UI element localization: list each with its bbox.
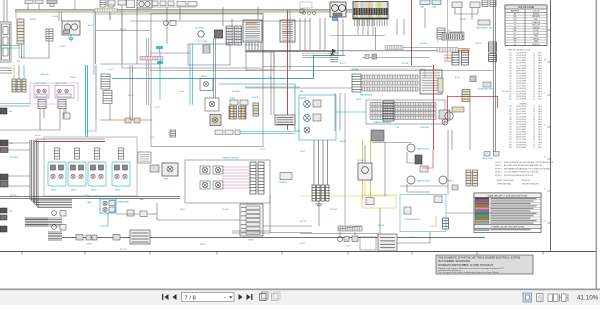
svg-text:301-GN WIRE: 301-GN WIRE	[516, 109, 526, 111]
wire	[364, 180, 366, 196]
zone box	[44, 137, 137, 196]
svg-text:C-07: C-07	[268, 77, 272, 79]
svg-text:YELLOW: YELLOW	[532, 25, 540, 27]
svg-text:G: G	[544, 221, 546, 223]
wire	[422, 150, 433, 168]
wire	[109, 12, 111, 21]
resistor R1	[438, 78, 443, 92]
svg-text:16: 16	[533, 73, 535, 75]
wire	[39, 108, 41, 130]
svg-text:WIPER: WIPER	[300, 98, 307, 100]
lamp E3	[52, 225, 66, 231]
wire	[232, 230, 270, 232]
svg-text:GND-2: GND-2	[60, 46, 66, 48]
svg-text:210-OR WIRE: 210-OR WIRE	[516, 98, 526, 100]
module A14	[25, 0, 33, 4]
svg-text:289: 289	[509, 126, 512, 128]
svg-text:PLUG: PLUG	[345, 246, 350, 248]
relay K5	[205, 98, 219, 111]
wire	[13, 65, 15, 79]
wire	[0, 47, 20, 49]
svg-text:VALVE: VALVE	[51, 189, 57, 192]
wire	[109, 104, 111, 120]
wire	[396, 19, 398, 35]
svg-text:CONVERTER 24V: CONVERTER 24V	[404, 219, 420, 221]
svg-text:YL: YL	[514, 25, 516, 27]
svg-text:105-RD: 105-RD	[52, 16, 59, 18]
svg-text:SW: SW	[9, 211, 12, 213]
wire	[263, 66, 433, 68]
connector bank J21	[229, 106, 237, 119]
svg-text:16: 16	[533, 119, 535, 121]
wire	[447, 0, 449, 60]
wire	[364, 145, 366, 163]
wire	[337, 19, 339, 55]
page border	[0, 251, 596, 253]
svg-text:RELAY: RELAY	[201, 75, 208, 78]
ignition unit A7	[371, 130, 384, 141]
wire	[140, 56, 160, 58]
wire	[85, 65, 87, 137]
wire	[8, 142, 30, 144]
zone box	[360, 237, 376, 250]
svg-text:START RELAY: START RELAY	[34, 82, 47, 85]
relay K6	[210, 115, 221, 126]
svg-text:102-RD WIRE: 102-RD WIRE	[516, 58, 526, 60]
wire	[403, 47, 437, 49]
diode D1	[125, 118, 131, 123]
svg-text:16: 16	[533, 55, 535, 57]
svg-text:201-WH: 201-WH	[222, 209, 229, 211]
svg-text:131-WH WIRE: 131-WH WIRE	[516, 78, 526, 80]
bus wires	[30, 140, 72, 208]
relay K4	[200, 75, 213, 91]
wire	[411, 0, 413, 65]
svg-text:320-WH WIRE: 320-WH WIRE	[516, 121, 526, 123]
wire	[30, 83, 78, 101]
connector J37	[490, 0, 496, 7]
switch S2	[0, 140, 13, 146]
connector J30	[130, 230, 150, 244]
svg-text:16: 16	[533, 129, 535, 131]
svg-text:16: 16	[533, 139, 535, 141]
wire	[109, 12, 111, 19]
wire list	[508, 49, 546, 149]
connector J26	[420, 70, 442, 94]
svg-text:205: 205	[509, 91, 512, 93]
wire	[342, 19, 344, 55]
svg-text:128: 128	[509, 63, 512, 65]
connector bank J22	[239, 106, 247, 119]
key switch S1	[476, 20, 492, 30]
wire	[240, 56, 345, 79]
svg-text:16: 16	[533, 132, 535, 134]
wire	[0, 45, 20, 47]
wire	[350, 69, 425, 78]
svg-text:233: 233	[509, 106, 512, 108]
wire	[150, 70, 493, 72]
wire	[458, 48, 470, 50]
wire	[219, 84, 295, 131]
svg-text:170: 170	[509, 78, 512, 80]
wire	[58, 12, 60, 21]
module A11	[118, 0, 126, 5]
plug X5	[345, 236, 358, 248]
next page button	[239, 294, 243, 300]
wire	[0, 72, 12, 74]
connector P1	[47, 0, 57, 7]
wire	[372, 142, 411, 144]
hour meter P2	[330, 2, 346, 17]
wire	[0, 67, 12, 69]
wire	[400, 185, 448, 187]
svg-text:16: 16	[533, 126, 535, 128]
svg-text:BLACK: BLACK	[533, 12, 540, 15]
svg-text:141-YL WIRE: 141-YL WIRE	[516, 86, 526, 88]
cover icon	[560, 294, 569, 302]
wire	[48, 29, 50, 41]
first page button	[162, 294, 169, 300]
wire	[0, 175, 30, 177]
svg-text:401-GN WIRE: 401-GN WIRE	[516, 142, 526, 144]
alternator G1	[137, 0, 152, 8]
svg-text:16: 16	[533, 116, 535, 118]
breaker CB2	[470, 2, 480, 8]
wire	[222, 7, 224, 26]
svg-text:BLUE: BLUE	[534, 30, 540, 32]
svg-text:338: 338	[509, 144, 512, 146]
bus wires	[25, 218, 62, 226]
svg-text:GAUGE TEMP: GAUGE TEMP	[417, 180, 430, 183]
instrument cluster	[300, 2, 316, 15]
ground	[316, 201, 323, 207]
beacon assembly	[87, 199, 130, 213]
svg-text:ALT-R: ALT-R	[180, 208, 186, 211]
connector J17	[38, 100, 46, 109]
wire	[85, 120, 96, 131]
connector J12	[437, 28, 445, 43]
svg-text:226: 226	[509, 98, 512, 100]
svg-text:16: 16	[533, 58, 535, 60]
svg-text:WIRE GROUP COLOR DESCRIPTIONS: WIRE GROUP COLOR DESCRIPTIONS	[488, 195, 528, 197]
svg-text:GRAY: GRAY	[533, 35, 539, 38]
wire	[246, 42, 261, 50]
svg-text:254: 254	[509, 114, 512, 116]
svg-text:SW: SW	[9, 111, 12, 113]
svg-text:BROWN: BROWN	[532, 16, 540, 18]
svg-text:SEE HARNESS DRAWINGS FOR CONNE: SEE HARNESS DRAWINGS FOR CONNECTOR DETAI…	[504, 167, 550, 170]
svg-text:TERM: TERM	[248, 240, 254, 242]
svg-text:E-STOP: E-STOP	[10, 195, 17, 197]
svg-text:307-GN: 307-GN	[120, 29, 127, 31]
connector stack J20	[103, 91, 112, 104]
svg-text:SPD SEN: SPD SEN	[232, 91, 241, 93]
wire	[330, 35, 385, 37]
connector J33	[442, 31, 462, 41]
connector J14	[489, 54, 497, 62]
svg-text:16: 16	[533, 63, 535, 65]
wire	[15, 10, 352, 12]
solenoid valve V4	[112, 148, 130, 192]
zone box	[151, 14, 263, 147]
svg-text:SPLICES SHOWN AS SOLID DOTS: SPLICES SHOWN AS SOLID DOTS	[504, 174, 534, 177]
gauge G2	[407, 176, 430, 184]
svg-text:109-GN WIRE: 109-GN WIRE	[516, 63, 526, 65]
fuse cable F4	[385, 46, 403, 50]
wire	[355, 19, 388, 26]
svg-text:149: 149	[509, 70, 512, 72]
svg-text:RED: RED	[534, 19, 539, 21]
svg-text:GND-2: GND-2	[356, 99, 362, 101]
svg-text:135: 135	[509, 65, 512, 67]
connector J10	[420, 0, 430, 9]
svg-text:B-PLUS: B-PLUS	[402, 63, 409, 65]
sensor B4	[279, 173, 292, 185]
svg-text:RELAY: RELAY	[70, 76, 77, 79]
zone box	[122, 14, 263, 68]
zone box	[188, 44, 230, 65]
wire	[424, 8, 426, 28]
wire	[358, 19, 373, 35]
svg-text:16: 16	[533, 134, 535, 136]
svg-text:350-GY WIRE: 350-GY WIRE	[516, 139, 526, 141]
wire	[232, 195, 270, 233]
wire	[222, 167, 250, 188]
diode D3	[452, 185, 458, 190]
flasher A8	[415, 155, 422, 164]
connector J4	[46, 29, 53, 41]
svg-text:HEAT RELAY: HEAT RELAY	[55, 82, 67, 85]
relay K8	[482, 152, 499, 161]
wire	[287, 10, 289, 130]
svg-text:296: 296	[509, 129, 512, 131]
svg-text:337-YL WIRE: 337-YL WIRE	[516, 132, 526, 134]
svg-text:240: 240	[509, 109, 512, 111]
svg-text:WH-WHT GRN-GRN: WH-WHT GRN-GRN	[522, 183, 539, 185]
svg-text:PINK: PINK	[534, 41, 539, 43]
svg-text:310: 310	[509, 134, 512, 136]
display icon	[333, 18, 338, 21]
svg-text:16: 16	[533, 93, 535, 95]
wire	[397, 232, 430, 243]
svg-text:16: 16	[533, 137, 535, 139]
svg-text:198: 198	[509, 88, 512, 90]
svg-text:WHITE: WHITE	[533, 38, 540, 40]
connector J11	[432, 0, 441, 9]
svg-text:BU-BLUE: BU-BLUE	[522, 180, 531, 182]
svg-text:317-BK WIRE: 317-BK WIRE	[516, 119, 526, 121]
motor M3	[445, 107, 464, 120]
wire	[132, 65, 134, 120]
cable end	[330, 53, 338, 62]
wire	[300, 18, 325, 50]
svg-text:208-BK: 208-BK	[410, 237, 417, 239]
svg-text:SCHEMATIC PART NUMBER: 12-V23B: SCHEMATIC PART NUMBER: 12-V23B, CHANGE 0…	[438, 264, 494, 267]
wire	[460, 8, 462, 33]
fuse block F2	[450, 32, 464, 40]
switch S4	[0, 174, 8, 187]
svg-text:201-WH WIRE: 201-WH WIRE	[516, 93, 526, 95]
svg-text:WIRE CKT GA WIRE COLOR: WIRE CKT GA WIRE COLOR	[508, 49, 531, 52]
module A3	[168, 1, 174, 6]
svg-text:ALARM BACKUP: ALARM BACKUP	[478, 88, 494, 91]
wire	[157, 219, 240, 221]
connector J25	[352, 74, 361, 92]
switch S10	[0, 108, 12, 114]
wire	[100, 63, 160, 65]
svg-text:206-RD WIRE: 206-RD WIRE	[516, 96, 526, 98]
bus wires	[48, 232, 62, 240]
toolbar background	[0, 289, 600, 291]
wire	[0, 185, 30, 187]
svg-text:(SCH NUMBER: SEVW29H4C): (SCH NUMBER: SEVW29H4C)	[438, 261, 470, 263]
wire	[0, 103, 30, 105]
wire	[0, 196, 180, 198]
wire	[6, 0, 8, 22]
svg-text:307-GN: 307-GN	[502, 91, 509, 93]
svg-text:100-WH WIRE: 100-WH WIRE	[516, 53, 526, 55]
svg-text:156: 156	[509, 73, 512, 75]
diode D2	[134, 118, 140, 123]
page number field	[182, 293, 235, 302]
clipboard icon	[272, 292, 281, 301]
svg-text:PUMP: PUMP	[163, 179, 169, 181]
wire	[231, 19, 233, 26]
svg-text:282: 282	[509, 124, 512, 126]
svg-text:16: 16	[533, 124, 535, 126]
wiper motor assembly	[299, 95, 336, 140]
svg-text:177: 177	[509, 81, 512, 83]
svg-text:121: 121	[509, 60, 512, 62]
wire	[61, 12, 63, 21]
wire	[375, 27, 377, 50]
svg-text:FUSE 10A: FUSE 10A	[420, 126, 429, 129]
wire	[8, 149, 30, 151]
svg-text:OTHER COLOR DESCRIPTIONS: OTHER COLOR DESCRIPTIONS	[491, 227, 525, 229]
connector J5	[100, 0, 114, 7]
connector P3 nested	[0, 22, 11, 62]
svg-text:16: 16	[533, 86, 535, 88]
inline connector X2	[86, 235, 97, 246]
connector J34	[170, 130, 176, 137]
horn B3	[478, 82, 494, 91]
sender B2	[439, 110, 450, 125]
connector J31	[378, 234, 397, 251]
wire	[38, 4, 40, 10]
svg-text:305-YL WIRE: 305-YL WIRE	[516, 111, 526, 113]
wire	[300, 233, 378, 235]
svg-text:114: 114	[509, 58, 512, 60]
wire	[339, 93, 341, 131]
wire	[116, 213, 152, 215]
ground	[68, 35, 74, 41]
svg-text:KEY SW: KEY SW	[357, 160, 365, 162]
svg-text:16: 16	[533, 83, 535, 85]
module A1	[152, 1, 158, 6]
svg-text:16: 16	[533, 142, 535, 144]
wire	[0, 198, 180, 200]
svg-text:247: 247	[509, 111, 512, 113]
wire	[15, 9, 352, 11]
wire	[112, 78, 150, 80]
svg-text:CHASSIS: CHASSIS	[519, 102, 527, 105]
svg-text:ALL SWITCHES SHOWN WITH MACHIN: ALL SWITCHES SHOWN WITH MACHINE OFF	[504, 164, 543, 167]
wire	[121, 5, 123, 64]
svg-text:329-OR WIRE: 329-OR WIRE	[516, 126, 526, 128]
svg-text:GREEN: GREEN	[533, 27, 540, 29]
svg-text:330-BU WIRE: 330-BU WIRE	[516, 129, 526, 131]
wire	[403, 19, 405, 35]
terminal strip TB1	[240, 204, 263, 242]
wire	[257, 7, 259, 20]
svg-text:135-RD WIRE: 135-RD WIRE	[516, 81, 526, 83]
svg-text:325-GN WIRE: 325-GN WIRE	[516, 124, 526, 126]
svg-text:SPD SEN: SPD SEN	[10, 157, 19, 159]
svg-text:120-BN WIRE: 120-BN WIRE	[516, 73, 526, 75]
solenoid valve V2	[68, 148, 86, 192]
svg-text:410-RD WIRE: 410-RD WIRE	[516, 147, 526, 149]
wire	[458, 50, 470, 52]
wire	[100, 213, 108, 226]
svg-text:324: 324	[509, 139, 512, 141]
switch S8	[0, 226, 7, 232]
border ticks	[22, 252, 543, 255]
svg-text:SOL-A: SOL-A	[35, 134, 41, 137]
svg-text:P-102: P-102	[108, 69, 113, 71]
wire	[62, 237, 485, 239]
module A5	[188, 2, 197, 7]
wire	[156, 203, 158, 220]
svg-text:410-YL: 410-YL	[128, 95, 134, 97]
svg-text:16: 16	[533, 121, 535, 123]
pump motor M4	[150, 163, 178, 181]
svg-text:16: 16	[533, 65, 535, 67]
svg-text:A-C12: A-C12	[88, 24, 93, 27]
svg-text:208-BK: 208-BK	[30, 19, 37, 21]
svg-text:GAUGE FUEL: GAUGE FUEL	[417, 148, 429, 151]
svg-text:CHASSIS HARNESS: CHASSIS HARNESS	[373, 121, 392, 124]
wire	[213, 38, 215, 98]
wire	[289, 10, 291, 70]
lamp E2	[52, 211, 66, 217]
wire	[148, 38, 150, 105]
svg-text:191: 191	[509, 86, 512, 88]
page border right	[544, 0, 550, 252]
svg-text:41.10%: 41.10%	[577, 295, 599, 302]
wire	[336, 111, 366, 113]
wire	[93, 11, 95, 75]
wire	[100, 119, 152, 121]
color code table	[505, 5, 547, 46]
svg-text:NOTE 1: NOTE 1	[495, 162, 502, 164]
switch S9	[127, 210, 134, 216]
svg-text:100: 100	[509, 53, 512, 55]
relay K3	[55, 82, 74, 98]
svg-text:139-BK WIRE: 139-BK WIRE	[516, 83, 526, 85]
svg-text:317: 317	[509, 137, 512, 139]
starter motor M1	[62, 21, 80, 35]
wire	[240, 133, 295, 135]
fuse panel connector bank	[353, 2, 388, 20]
sender B5	[439, 176, 454, 184]
svg-text:J1-12: J1-12	[150, 137, 155, 139]
harness box W2	[366, 100, 445, 124]
svg-text:C-12 CONN: C-12 CONN	[196, 41, 207, 43]
solenoid valve V1	[48, 148, 66, 192]
wire group color legend	[474, 193, 541, 233]
aux control box	[400, 195, 449, 232]
wire	[455, 8, 478, 14]
